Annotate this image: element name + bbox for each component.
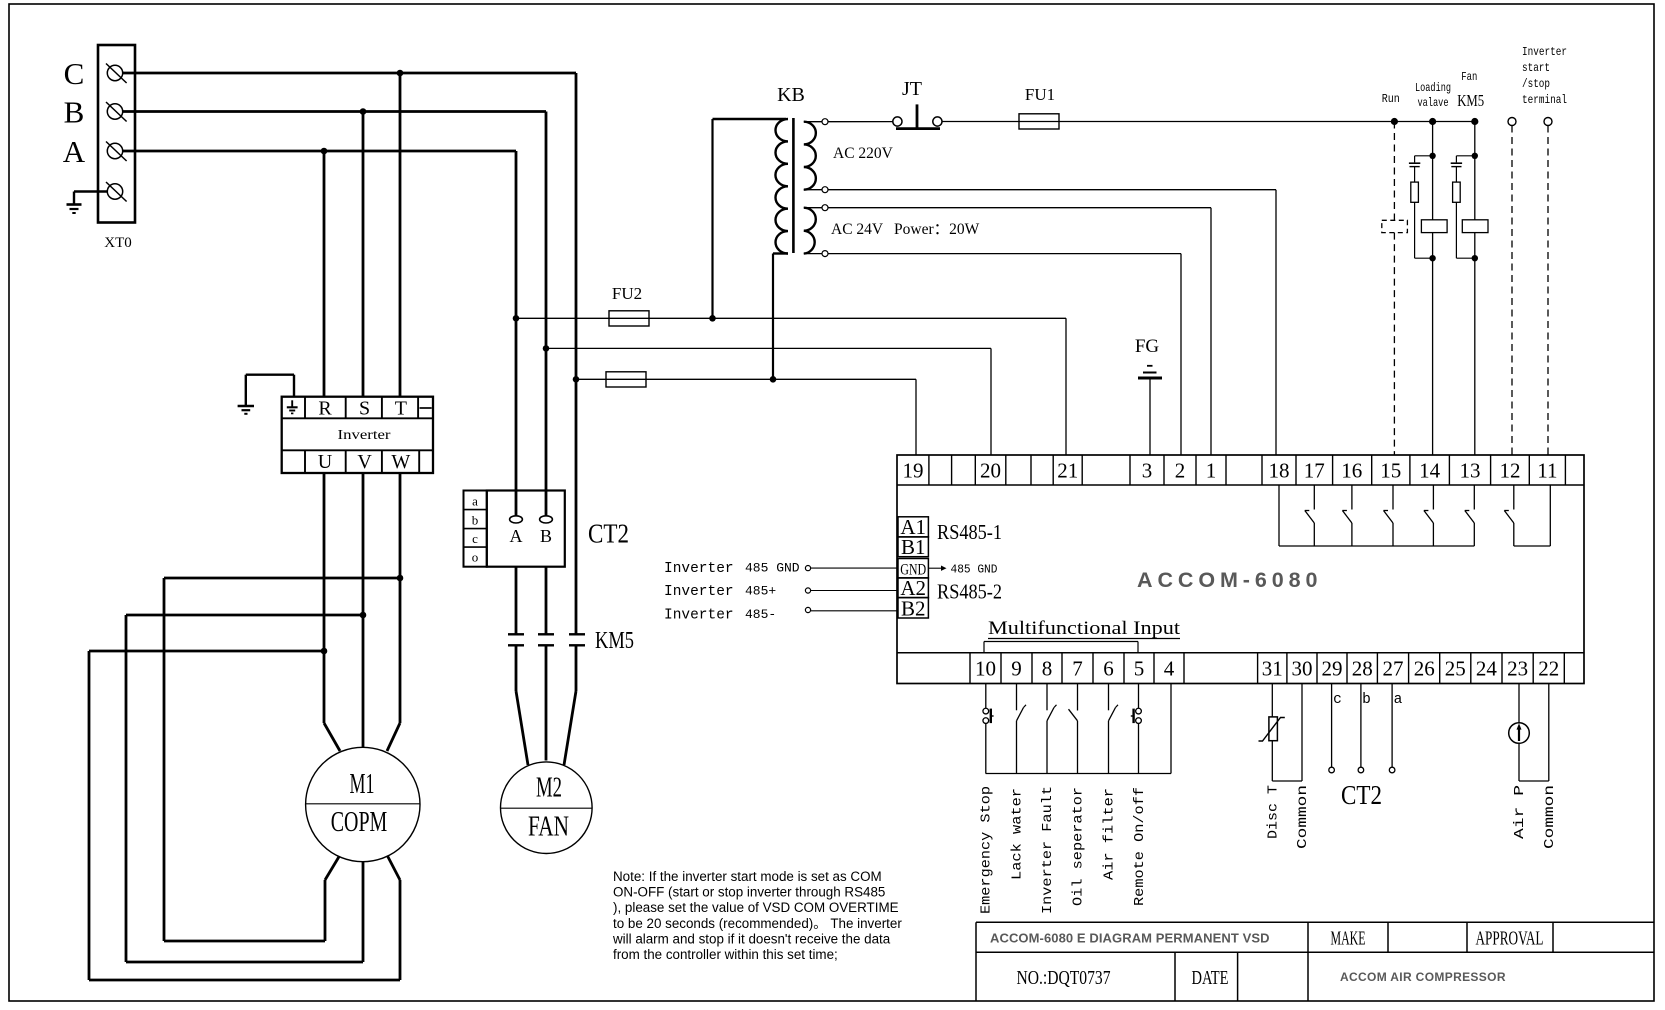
inverter U1 block: [282, 397, 433, 473]
svg-text:XT0: XT0: [104, 235, 132, 251]
svg-text:AC 24V: AC 24V: [831, 221, 884, 238]
transformer KB primary winding: [775, 119, 788, 254]
relay contact under 15: [1392, 485, 1394, 510]
fuse FU2b: [606, 372, 646, 387]
svg-text:/stop: /stop: [1522, 77, 1550, 91]
wire CT2 b (28): [1360, 684, 1362, 768]
relay contact under 16: [1351, 485, 1353, 510]
svg-text:M2: M2: [536, 771, 562, 803]
svg-text:ACCOM AIR COMPRESSOR: ACCOM AIR COMPRESSOR: [1340, 970, 1507, 984]
svg-text:RS485-2: RS485-2: [937, 579, 1002, 603]
node T-C junction: [397, 70, 404, 77]
contactor KM5 contact A: [508, 633, 524, 635]
svg-text:Inverter: Inverter: [664, 584, 734, 600]
wire input common bus: [986, 773, 1171, 775]
wire V drop: [362, 472, 365, 747]
svg-text:CT2: CT2: [588, 519, 629, 549]
node Run feed: [1391, 118, 1398, 125]
svg-text:a: a: [472, 494, 478, 509]
svg-text:A: A: [63, 134, 86, 169]
svg-text:B: B: [64, 95, 85, 130]
svg-text:5: 5: [1134, 657, 1145, 681]
node U loop junction: [321, 648, 328, 655]
svg-text:from the controller within thi: from the controller within this set time…: [613, 947, 838, 962]
svg-text:21: 21: [1057, 459, 1078, 483]
wire feed 2: [546, 347, 991, 349]
wire loop top 1: [164, 577, 400, 580]
thermistor Disc T: [1269, 717, 1278, 741]
node Loading snubber bottom: [1429, 255, 1435, 261]
terminal block XT0: [98, 45, 135, 223]
XT0 terminal circle 1: [107, 65, 122, 80]
inverter ground symbol: [238, 405, 254, 408]
RS485 terminal A2: [898, 578, 928, 598]
svg-text:RS485-1: RS485-1: [937, 520, 1002, 544]
remote on/off button (terminal 5): [1138, 684, 1140, 709]
multifunctional input bracket: [984, 641, 1138, 643]
XT0 ground symbol: [67, 203, 82, 206]
svg-text:Remote On/off: Remote On/off: [1132, 787, 1148, 906]
svg-text:1: 1: [1206, 459, 1217, 483]
contactor KM5 contact C: [569, 633, 585, 635]
svg-text:19: 19: [903, 459, 924, 483]
wire relay common bus: [1279, 545, 1474, 547]
svg-text:27: 27: [1383, 657, 1404, 681]
wire 485GND: [805, 566, 810, 571]
node Fan snubber bottom: [1472, 255, 1478, 261]
svg-text:24: 24: [1476, 657, 1498, 681]
svg-text:CT2: CT2: [1341, 780, 1382, 810]
node wire1-A junction: [513, 315, 520, 322]
inverter stop terminal circle: [1544, 118, 1552, 126]
RS485 terminal A1: [898, 517, 928, 537]
svg-text:Fan: Fan: [1461, 70, 1477, 84]
wire loop top 3: [89, 650, 324, 653]
svg-text:Multifunctional Input: Multifunctional Input: [988, 618, 1181, 639]
relay Run dashed line: [1393, 122, 1395, 221]
svg-text:valave: valave: [1418, 96, 1449, 110]
svg-text:29: 29: [1322, 657, 1343, 681]
relay contact under 14: [1432, 485, 1434, 510]
motor M1: [306, 747, 420, 861]
svg-text:FU2: FU2: [612, 284, 642, 303]
svg-text:Disc T: Disc T: [1265, 785, 1281, 839]
svg-text:Run: Run: [1382, 92, 1400, 106]
pushbutton JT: [893, 117, 902, 126]
wire W drop: [399, 472, 402, 723]
svg-text:28: 28: [1352, 657, 1373, 681]
wire feed 1 (220V via FU2): [516, 317, 1066, 319]
fuse FU1: [1019, 114, 1059, 129]
svg-text:20: 20: [980, 459, 1001, 483]
svg-text:start: start: [1522, 61, 1550, 75]
wire terminal 4 drop: [1170, 684, 1172, 774]
relay coil Run (dashed): [1382, 220, 1408, 232]
svg-text:FU1: FU1: [1025, 85, 1055, 104]
svg-text:Lack water: Lack water: [1010, 788, 1026, 880]
svg-text:Oil seperator: Oil seperator: [1071, 787, 1087, 906]
svg-text:31: 31: [1262, 657, 1283, 681]
svg-text:Air P: Air P: [1512, 785, 1528, 839]
inverter PE cell earth symbol: [291, 400, 293, 407]
svg-text:Inverter Fault: Inverter Fault: [1040, 786, 1056, 914]
wire 220V bottom to terminal 18: [828, 189, 1276, 191]
svg-text:Air filter: Air filter: [1102, 788, 1118, 880]
wire terminal 23 drop: [1518, 684, 1520, 723]
transformer KB secondary 24V winding: [804, 208, 816, 254]
emergency stop button (terminal 10): [985, 684, 987, 709]
Loading snubber branch: [1415, 155, 1433, 157]
svg-text:22: 22: [1538, 657, 1559, 681]
svg-text:B: B: [540, 526, 552, 546]
wire 485-: [805, 607, 810, 612]
arrow 485 GND internal: [929, 567, 942, 569]
svg-text:to be 20 seconds (recommended): to be 20 seconds (recommended)。 The inve…: [613, 916, 902, 931]
svg-text:ACCOM-6080: ACCOM-6080: [1137, 568, 1321, 592]
wire terminal 31 drop: [1271, 684, 1273, 717]
input contact Inverter Fault (8): [1046, 684, 1048, 711]
svg-text:485+: 485+: [745, 584, 776, 599]
svg-text:Inverter: Inverter: [664, 608, 734, 624]
wire 11 stub: [1549, 485, 1551, 546]
svg-text:KB: KB: [777, 84, 805, 106]
wire 31-30 link: [1272, 780, 1302, 782]
XT0 terminal circle 4: [107, 184, 122, 199]
wire feed 1 drop to 21: [1065, 318, 1067, 455]
KB 220V top terminal: [822, 119, 828, 125]
svg-text:14: 14: [1419, 459, 1441, 483]
wire phase B: [123, 110, 546, 113]
svg-text:ACCOM-6080 E DIAGRAM PERMANENT: ACCOM-6080 E DIAGRAM PERMANENT VSD: [990, 931, 1271, 946]
wire phase A drop: [515, 151, 518, 517]
inverter ground wire: [293, 375, 295, 397]
contactor KM5 contact B: [538, 633, 554, 635]
svg-text:Inverter: Inverter: [338, 428, 391, 443]
wire 220V top to JT: [828, 121, 893, 123]
svg-text:c: c: [1333, 692, 1342, 708]
svg-text:Inverter: Inverter: [1522, 45, 1567, 59]
wire T riser: [399, 73, 402, 397]
wire 23-22 link: [1519, 780, 1549, 782]
svg-text:DATE: DATE: [1192, 967, 1229, 989]
svg-text:KM5: KM5: [595, 628, 634, 654]
title block: [976, 921, 1654, 923]
wire Fan column: [1474, 122, 1476, 456]
wire feed 3 drop to 19: [915, 379, 917, 455]
relay contact under 12: [1513, 485, 1515, 510]
svg-text:b: b: [472, 513, 479, 528]
svg-text:will alarm and stop if it does: will alarm and stop if it doesn't receiv…: [612, 931, 891, 946]
KB 24V bottom terminal: [822, 251, 828, 257]
svg-text:485 GND: 485 GND: [951, 563, 998, 577]
input contact Air filter (6): [1108, 684, 1110, 711]
dashed wire start to 12: [1511, 126, 1513, 456]
svg-text:11: 11: [1537, 459, 1557, 483]
wire S riser: [362, 112, 365, 398]
svg-text:4: 4: [1164, 657, 1175, 681]
svg-text:Note: If the inverter start mo: Note: If the inverter start mode is set …: [613, 869, 882, 884]
svg-text:3: 3: [1142, 459, 1153, 483]
svg-text:U: U: [318, 451, 333, 473]
svg-text:2: 2: [1175, 459, 1186, 483]
wire loop bottom 1: [164, 940, 325, 943]
svg-text:7: 7: [1072, 657, 1083, 681]
capacitor C-loading: [1409, 162, 1420, 164]
node KB primary bottom junction: [770, 376, 777, 383]
svg-text:485-: 485-: [745, 607, 776, 622]
input contact Lack water (9): [1016, 684, 1018, 711]
wire 485+: [805, 588, 810, 593]
svg-text:R: R: [318, 398, 332, 420]
wire M1 out right: [387, 855, 400, 880]
svg-text:25: 25: [1445, 657, 1466, 681]
svg-text:AC 220V: AC 220V: [833, 145, 894, 162]
transformer KB primary lead bottom: [773, 252, 788, 254]
svg-text:NO.:DQT0737: NO.:DQT0737: [1017, 967, 1111, 989]
wire R riser: [323, 151, 326, 397]
transformer KB primary lead top: [711, 119, 713, 318]
Fan snubber branch: [1456, 155, 1474, 157]
svg-text:B1: B1: [901, 535, 926, 559]
wire terminal 30 drop: [1301, 684, 1303, 782]
relay contact under 17: [1313, 485, 1315, 510]
XT0 terminal circle 3: [107, 143, 122, 158]
svg-text:A: A: [510, 526, 523, 546]
svg-text:18: 18: [1269, 459, 1290, 483]
KB 24V top terminal: [822, 205, 828, 211]
wire 12-11 bus: [1514, 545, 1551, 547]
wire loop left 3: [88, 651, 91, 980]
wire CT2 c (29): [1331, 684, 1333, 768]
ground FG symbol: [1147, 365, 1153, 367]
svg-text:V: V: [357, 451, 372, 473]
svg-text:10: 10: [975, 657, 996, 681]
controller bottom terminal row: [897, 652, 1584, 654]
svg-text:16: 16: [1341, 459, 1362, 483]
wire phase C drop: [575, 73, 578, 634]
svg-text:MAKE: MAKE: [1331, 928, 1366, 950]
svg-text:COPM: COPM: [331, 806, 388, 838]
svg-text:b: b: [1362, 692, 1371, 708]
svg-text:a: a: [1394, 692, 1403, 708]
svg-text:17: 17: [1304, 459, 1325, 483]
svg-text:8: 8: [1042, 657, 1053, 681]
node Fan feed: [1471, 118, 1478, 125]
dashed wire stop to 11: [1547, 126, 1549, 456]
RS485 terminal B1: [898, 537, 928, 557]
wire A through CT2: [515, 567, 518, 635]
svg-text:KM5: KM5: [1457, 91, 1484, 110]
wire B to M2: [545, 645, 548, 760]
resistor R-loading: [1411, 182, 1419, 202]
wire loop left 1: [163, 578, 166, 941]
wire CT2 a (27): [1391, 684, 1393, 768]
svg-text:B2: B2: [901, 596, 926, 620]
svg-text:30: 30: [1292, 657, 1313, 681]
fuse FU2a: [609, 311, 649, 326]
input contact Oil seperator (7): [1077, 684, 1079, 711]
svg-text:6: 6: [1103, 657, 1114, 681]
svg-text:JT: JT: [902, 78, 922, 100]
svg-text:12: 12: [1500, 459, 1521, 483]
transformer KB secondary 220V winding: [804, 122, 816, 190]
wire loop bottom 2: [126, 961, 363, 964]
svg-text:26: 26: [1414, 657, 1435, 681]
relay coil Loading valve: [1421, 220, 1447, 233]
svg-text:S: S: [359, 398, 370, 420]
node KB primary top junction: [709, 315, 716, 322]
svg-text:ON-OFF (start or stop inverter: ON-OFF (start or stop inverter through R…: [613, 885, 885, 900]
RS485 terminal B2: [898, 598, 928, 618]
svg-text:c: c: [472, 531, 478, 546]
node V loop junction: [360, 612, 367, 619]
CT2 sensor B: [540, 516, 553, 523]
svg-text:FG: FG: [1135, 336, 1160, 357]
wire loop bottom 3: [89, 979, 400, 982]
controller U2 ACCOM-6080 box: [897, 455, 1584, 684]
wire phase A: [123, 150, 516, 153]
svg-text:9: 9: [1011, 657, 1022, 681]
XT0 terminal circle 2: [107, 104, 122, 119]
svg-text:23: 23: [1507, 657, 1528, 681]
svg-text:Inverter: Inverter: [664, 561, 734, 577]
svg-text:W: W: [391, 451, 410, 473]
wire phase B drop: [545, 112, 548, 517]
node Loading snubber top: [1429, 153, 1435, 159]
node Loading feed: [1429, 118, 1436, 125]
motor M2: [501, 762, 593, 854]
svg-text:APPROVAL: APPROVAL: [1476, 928, 1544, 950]
relay coil Fan KM5: [1462, 220, 1488, 233]
svg-text:13: 13: [1460, 459, 1481, 483]
svg-text:), please set the value of VSD: ), please set the value of VSD COM OVERT…: [613, 900, 899, 915]
node wire3-C junction: [573, 376, 580, 383]
svg-text:485 GND: 485 GND: [745, 561, 800, 576]
wire 24V top to terminal 1: [828, 207, 1211, 209]
svg-text:M1: M1: [350, 768, 375, 800]
svg-text:o: o: [472, 550, 479, 565]
wire B through CT2: [545, 567, 548, 635]
wire loop top 2: [126, 614, 363, 617]
svg-text:Emergency Stop: Emergency Stop: [979, 786, 995, 914]
wire phase C: [123, 72, 576, 75]
current transformer CT2 block: [487, 491, 565, 567]
inverter start terminal circle: [1508, 118, 1516, 126]
svg-text:15: 15: [1380, 459, 1401, 483]
CT2 sensor A: [510, 516, 523, 523]
node wire2-B junction: [543, 345, 550, 352]
svg-text:C: C: [64, 56, 85, 91]
wire 18 stub: [1278, 485, 1280, 546]
svg-text:terminal: terminal: [1522, 93, 1567, 107]
wire FU1 to relay bus: [1059, 121, 1475, 123]
wire loop left 2: [125, 615, 128, 962]
wire C to M2: [575, 645, 578, 691]
wire feed 3 (24V common): [576, 378, 916, 380]
wire 24V bottom to terminal 2: [828, 253, 1181, 255]
relay contact under 13: [1473, 485, 1475, 510]
wire FG to terminal 3: [1149, 378, 1151, 455]
wire terminal 22 drop: [1548, 684, 1550, 782]
KB 220V bottom terminal: [822, 187, 828, 193]
wire U drop: [323, 472, 326, 723]
resistor R-fan: [1453, 182, 1461, 202]
pressure sensor Air P: [1509, 723, 1530, 744]
wire M1 out left: [325, 855, 340, 880]
node Fan snubber top: [1472, 153, 1478, 159]
svg-text:Loading: Loading: [1415, 81, 1451, 95]
wire A to M2: [515, 645, 518, 691]
node R-A junction: [321, 148, 328, 155]
node W loop junction: [397, 575, 404, 582]
svg-text:Common: Common: [1542, 785, 1558, 849]
svg-text:Common: Common: [1295, 785, 1311, 849]
controller top terminal row: [897, 484, 1584, 486]
node S-B junction: [360, 108, 367, 115]
wire M1 out mid: [362, 860, 365, 962]
RS485 terminal GND: [898, 559, 928, 578]
transformer KB core: [792, 118, 795, 253]
svg-text:Power：20W: Power：20W: [894, 221, 980, 238]
wire JT to FU1: [942, 121, 1019, 123]
XT0 ground wire: [74, 190, 107, 192]
svg-text:T: T: [395, 398, 407, 420]
wire Loading valve column: [1432, 122, 1434, 456]
svg-text:FAN: FAN: [528, 811, 569, 843]
capacitor C-fan: [1451, 162, 1462, 164]
